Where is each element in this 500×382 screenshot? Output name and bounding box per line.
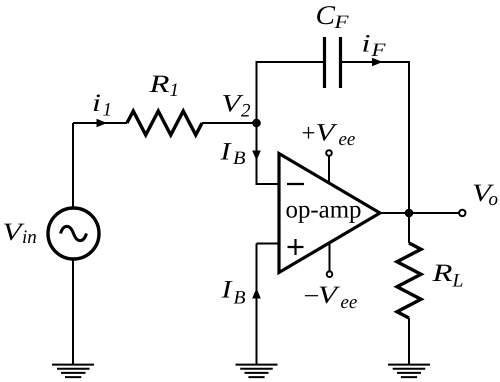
svg-text:o: o xyxy=(489,189,499,210)
wire RL to ground xyxy=(408,318,410,365)
svg-text:V: V xyxy=(318,282,340,309)
svg-text:op-amp: op-amp xyxy=(286,197,362,224)
resistor R1 xyxy=(127,111,202,135)
+Vee terminal xyxy=(326,150,332,156)
svg-text:C: C xyxy=(316,0,337,30)
svg-text:R: R xyxy=(431,260,452,287)
current arrow IB (up from ground) xyxy=(252,288,261,299)
svg-text:i: i xyxy=(362,31,371,58)
ground (under RL) xyxy=(388,365,430,378)
svg-text:in: in xyxy=(22,227,37,248)
svg-text:i: i xyxy=(92,90,101,117)
ground (under Vin) xyxy=(52,365,94,378)
voltage source Vin xyxy=(48,208,99,259)
current arrow iF xyxy=(372,58,383,67)
wire top horizontal input to resistor xyxy=(73,122,127,124)
label IB (top) xyxy=(219,139,246,170)
svg-text:L: L xyxy=(451,271,463,292)
svg-text:ee: ee xyxy=(341,292,358,313)
wire output node down to RL xyxy=(408,213,410,243)
Vo terminal xyxy=(459,210,465,216)
label -Vee xyxy=(304,282,358,313)
label +Vee xyxy=(302,120,356,151)
current arrow IB (into inverting input) xyxy=(252,151,261,161)
wire node V2 down to inverting input xyxy=(257,123,281,184)
-Vee terminal xyxy=(327,271,333,277)
wire capacitor right to top-right corner down xyxy=(342,62,409,213)
label Vo xyxy=(472,180,498,210)
wire op-amp output to Vo terminal xyxy=(380,212,459,214)
svg-text:I: I xyxy=(220,277,233,304)
label iF xyxy=(362,31,386,62)
label CF xyxy=(316,0,349,33)
wire non-inverting branch down to ground xyxy=(256,244,258,366)
svg-text:+: + xyxy=(302,120,316,147)
svg-text:B: B xyxy=(234,288,246,309)
svg-text:2: 2 xyxy=(241,101,251,122)
resistor RL xyxy=(397,243,421,318)
node V2 xyxy=(252,119,261,128)
svg-text:V: V xyxy=(316,120,338,147)
wire node V2 up and right to capacitor xyxy=(257,62,324,123)
label IB (bottom) xyxy=(220,277,246,309)
label R1 xyxy=(148,71,179,101)
output node xyxy=(405,209,414,218)
label V2 xyxy=(222,91,252,122)
svg-text:R: R xyxy=(148,71,169,98)
capacitor CF xyxy=(325,37,341,88)
svg-text:F: F xyxy=(333,12,349,33)
wire op-amp to -Vee terminal xyxy=(329,244,331,272)
svg-text:I: I xyxy=(219,139,232,166)
wire non-inverting input xyxy=(257,243,281,245)
label Vin xyxy=(3,219,37,248)
ground (under non-inverting branch) xyxy=(236,365,278,378)
svg-text:B: B xyxy=(233,148,246,169)
svg-text:ee: ee xyxy=(339,129,356,150)
svg-text:1: 1 xyxy=(103,100,113,121)
label RL xyxy=(431,260,463,292)
wire resistor to node V2 xyxy=(202,122,257,124)
current arrow i1 xyxy=(97,119,108,128)
op-amp plus symbol xyxy=(288,239,304,255)
wire +Vee terminal to op-amp xyxy=(328,156,330,184)
svg-text:F: F xyxy=(370,40,386,61)
op-amp U1 xyxy=(279,154,380,273)
wire source bottom to ground xyxy=(72,259,74,365)
wire left vertical from corner to source top xyxy=(72,123,74,209)
svg-text:1: 1 xyxy=(170,80,180,101)
label i1 xyxy=(92,90,112,121)
op-amp minus symbol xyxy=(287,183,304,185)
